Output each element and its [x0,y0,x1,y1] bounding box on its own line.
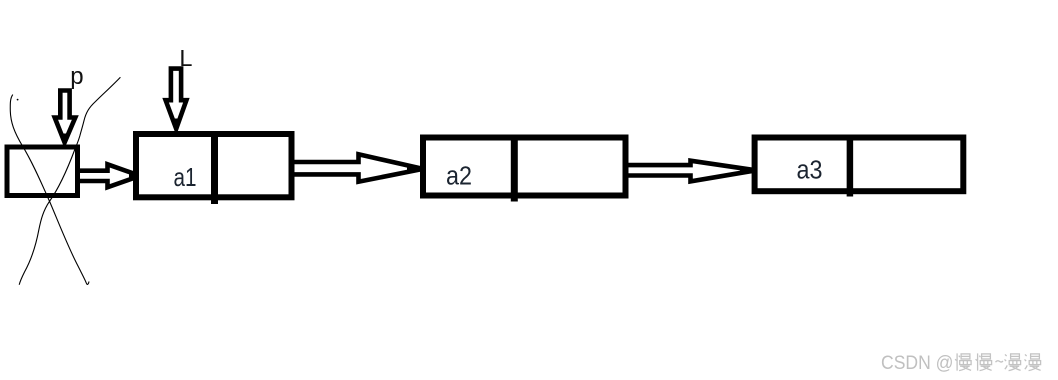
ink dot [17,99,19,101]
node a3 box [755,135,964,197]
strike line 2 (top-right to bottom-left) [19,77,120,285]
svg-text:a1: a1 [174,162,197,192]
svg-text:CSDN @: CSDN @ [881,352,954,374]
node a1 box [136,131,292,204]
arrow a2 to a3 (hollow right block arrow) [624,161,758,182]
arrow p (hollow down block arrow) [55,91,76,147]
arrow a1 to a2 (hollow right block arrow) [292,154,425,181]
svg-text:a2: a2 [446,163,472,191]
watermark CSDN [881,352,954,374]
strike line 1 (top-left to bottom-right) [10,95,89,285]
svg-text:p: p [70,63,83,90]
svg-text:a3: a3 [797,157,823,185]
pointer node box (deleted) [7,147,78,196]
arrow L (hollow down block arrow) [166,69,187,131]
watermark CJK glyphs (drawn) [955,353,1041,370]
node a2 box [423,135,626,202]
arrow p-box to a1 (hollow right block arrow) [73,164,143,187]
